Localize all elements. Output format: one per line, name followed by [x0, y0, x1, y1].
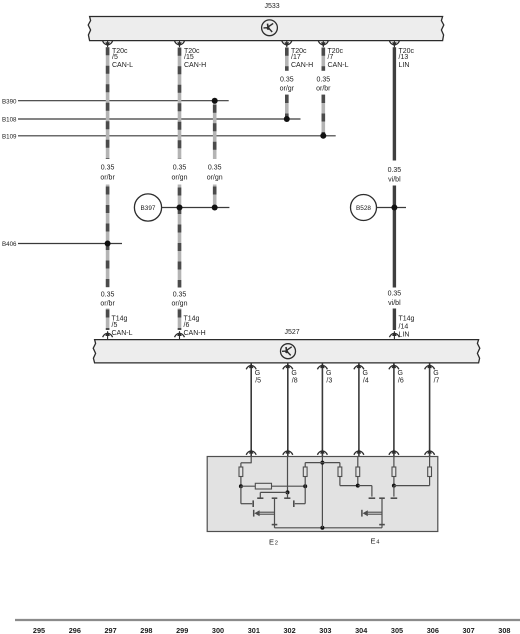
svg-text:G: G: [398, 370, 403, 377]
svg-text:G: G: [291, 370, 296, 377]
resistor in E4 (leftmost): [339, 463, 341, 467]
svg-text:J533: J533: [265, 3, 280, 10]
internal connection symbol K in J533: [262, 20, 278, 36]
svg-text:E: E: [269, 537, 274, 546]
terminal arrow T14g/6 at J527: [179, 331, 181, 339]
resistor in E4 (second): [356, 467, 360, 477]
wire from B397: [162, 207, 230, 209]
svg-text:/5: /5: [255, 378, 261, 385]
wire vi/bl LIN upper segment: [393, 47, 396, 160]
svg-text:B109: B109: [2, 134, 17, 141]
svg-text:B528: B528: [356, 205, 371, 212]
centre electrode of E4 transistor: [379, 497, 385, 499]
terminal arrow G/5 at J527 bottom: [250, 363, 252, 457]
terminal arrow T20c/13 at J533: [393, 41, 395, 48]
svg-text:G: G: [255, 370, 260, 377]
svg-text:307: 307: [463, 626, 475, 634]
svg-text:G: G: [326, 370, 331, 377]
junction B397 line / stub wire: [212, 205, 218, 211]
svg-text:0.35: 0.35: [208, 165, 222, 172]
node B junction in E2: [303, 484, 307, 488]
svg-text:or/gn: or/gn: [207, 175, 223, 182]
svg-text:4: 4: [376, 540, 380, 546]
svg-text:G: G: [363, 370, 368, 377]
svg-text:/7: /7: [328, 54, 334, 61]
svg-text:/13: /13: [399, 54, 409, 61]
diode in E4: [361, 510, 363, 517]
junction B528 line / LIN wire: [391, 205, 397, 211]
svg-text:/7: /7: [434, 378, 440, 385]
svg-text:B390: B390: [2, 98, 17, 105]
wire from pin G/3 through box: [321, 457, 323, 528]
wire or/br lower segment: [106, 309, 110, 331]
wire from B528: [377, 207, 407, 209]
wire vi/bl lower segment: [393, 309, 396, 331]
junction bottom rail / G3 wire: [320, 526, 324, 530]
terminal arrow G/8 at J527 bottom: [287, 363, 289, 457]
svg-text:CAN-H: CAN-H: [291, 62, 313, 69]
wire or/gn T20c/15 upper segment: [178, 47, 182, 159]
diode in E2: [253, 510, 255, 517]
control unit J533 (diagnostic interface / gateway): [88, 17, 444, 41]
junction on B390 line (stub wire): [212, 98, 218, 104]
bottom rail of E-box: [275, 527, 383, 529]
junction on B108 line (wire T20c/17): [284, 116, 290, 122]
svg-text:0.35: 0.35: [388, 167, 402, 174]
link resistor to node D: [394, 485, 430, 487]
svg-text:297: 297: [105, 626, 117, 634]
terminal arrow into E-box (G/4): [357, 449, 362, 454]
gate bar 2 of E2 transistor: [284, 497, 290, 499]
wire or/gn lower segment: [178, 309, 182, 331]
node B390 connection line: [18, 100, 229, 102]
svg-text:/5: /5: [112, 54, 118, 61]
connection B528: [351, 195, 377, 221]
svg-text:298: 298: [140, 626, 152, 634]
terminal arrow into E-box (G/3): [320, 449, 325, 454]
svg-text:304: 304: [355, 626, 368, 634]
node C junction in E4: [356, 484, 360, 488]
gate feed 1 of E4 transistor: [358, 485, 372, 487]
svg-text:/15: /15: [184, 54, 194, 61]
connection B397: [134, 194, 161, 221]
wire from pin G/4 to resistor: [357, 457, 359, 468]
junction on B109 line (wire T20c/7): [320, 133, 326, 139]
node B108 connection line: [18, 118, 301, 120]
terminal arrow T14g/5 at J527: [107, 331, 109, 339]
wire jog from pin G/5 to resistor: [250, 457, 252, 463]
top rail between resistors: [305, 462, 340, 464]
node B406 connection line: [18, 243, 122, 245]
svg-text:CAN-H: CAN-H: [184, 62, 206, 69]
current track scale line: [15, 619, 520, 621]
wire from pin G/6 to resistor: [393, 457, 395, 468]
svg-text:0.35: 0.35: [173, 165, 187, 172]
svg-text:302: 302: [284, 626, 296, 634]
resistor in E4 (rightmost): [428, 467, 432, 477]
wire from pin G/8 to gate node: [287, 457, 289, 493]
gate feed 2 of E4 transistor: [393, 486, 395, 497]
wire or/gn stub lower segment: [213, 185, 217, 208]
svg-text:B397: B397: [141, 205, 156, 212]
terminal arrow T20c/5 at J533: [107, 41, 109, 48]
wire or/gr lower segment: [285, 94, 289, 119]
svg-text:299: 299: [176, 626, 188, 634]
svg-text:301: 301: [248, 626, 260, 634]
svg-text:or/br: or/br: [316, 85, 331, 92]
svg-text:0.35: 0.35: [388, 290, 402, 297]
svg-text:CAN-L: CAN-L: [112, 62, 133, 69]
junction B397 line / CAN-H wire: [177, 205, 183, 211]
drain contact of E2 transistor: [293, 500, 295, 507]
gate bar 1 of E2 transistor: [257, 497, 263, 499]
resistor in E2 (right): [304, 477, 306, 487]
terminal arrow G/3 at J527 bottom: [321, 363, 323, 457]
terminal arrow T20c/15 at J533: [179, 41, 181, 48]
wire or/gn stub upper segment: [213, 101, 217, 159]
svg-text:E: E: [371, 536, 376, 545]
wire or/br T20c/5 upper segment: [106, 47, 110, 159]
svg-text:G: G: [433, 370, 438, 377]
svg-text:/6: /6: [184, 322, 190, 329]
svg-text:CAN-H: CAN-H: [184, 330, 206, 337]
terminal arrow G/6 at J527 bottom: [393, 363, 395, 457]
svg-text:0.35: 0.35: [101, 165, 115, 172]
control unit J527 (steering column electronics): [93, 340, 480, 363]
svg-text:B108: B108: [2, 117, 17, 124]
svg-text:/3: /3: [326, 378, 332, 385]
wire or/br lower segment (T20c/7): [321, 94, 325, 136]
gate bar 2 of E4 transistor: [391, 497, 398, 499]
svg-text:or/gn: or/gn: [172, 175, 188, 182]
series resistor (horizontal) in E2: [241, 485, 305, 487]
wire from pin G/7 to resistor: [429, 457, 431, 468]
svg-text:or/br: or/br: [100, 175, 115, 182]
svg-text:308: 308: [498, 626, 510, 634]
svg-text:/14: /14: [399, 324, 409, 331]
svg-text:0.35: 0.35: [173, 291, 187, 298]
terminal arrow T20c/17 at J533: [286, 41, 288, 48]
svg-text:305: 305: [391, 626, 403, 634]
svg-text:or/gr: or/gr: [280, 85, 295, 92]
svg-text:CAN-L: CAN-L: [112, 330, 133, 337]
gate bar 1 of E4 transistor: [369, 497, 376, 499]
gate node junction in E2: [286, 490, 290, 494]
junction top rail / G3 wire: [320, 461, 324, 465]
gate line of E2 transistor: [260, 491, 287, 493]
svg-text:300: 300: [212, 626, 224, 634]
svg-text:B406: B406: [2, 241, 17, 248]
terminal arrow into E-box (G/8): [286, 449, 291, 454]
wire or/gr T20c/17 upper segment: [285, 47, 289, 70]
svg-text:J527: J527: [285, 329, 300, 336]
terminal arrow G/7 at J527 bottom: [429, 363, 431, 457]
resistor in E2 (left): [239, 467, 243, 477]
svg-text:2: 2: [275, 541, 278, 547]
svg-text:303: 303: [319, 626, 331, 634]
centre electrode of E2 transistor: [272, 497, 278, 499]
terminal arrow into E-box (G/5): [249, 449, 254, 454]
source contact of E2 transistor: [240, 486, 242, 504]
svg-text:/6: /6: [398, 378, 404, 385]
terminal arrow T14g/14 at J527: [393, 331, 395, 339]
svg-text:/4: /4: [363, 378, 369, 385]
svg-text:/17: /17: [291, 54, 301, 61]
svg-text:or/gn: or/gn: [172, 301, 188, 308]
wire vi/bl middle segment: [393, 186, 396, 288]
wire or/br middle segment: [106, 185, 110, 288]
svg-text:vi/bl: vi/bl: [388, 177, 401, 184]
svg-text:/8: /8: [292, 378, 298, 385]
terminal arrow T20c/7 at J533: [322, 41, 324, 48]
node A junction in E2: [239, 484, 243, 488]
svg-text:LIN: LIN: [399, 62, 410, 69]
svg-text:/5: /5: [112, 322, 118, 329]
svg-text:295: 295: [33, 626, 45, 634]
wire or/gn middle segment: [178, 185, 182, 288]
terminal arrow G/4 at J527 bottom: [358, 363, 360, 457]
node B109 connection line: [18, 135, 336, 137]
svg-text:0.35: 0.35: [101, 291, 115, 298]
svg-text:0.35: 0.35: [316, 76, 330, 83]
svg-text:0.35: 0.35: [280, 76, 294, 83]
svg-text:LIN: LIN: [399, 331, 410, 338]
terminal arrow into E-box (G/6): [392, 449, 397, 454]
junction on B406 line (wire T20c/5): [105, 241, 111, 247]
svg-text:or/br: or/br: [100, 301, 115, 308]
resistor in E4 (third): [392, 467, 396, 477]
node D junction in E4: [392, 484, 396, 488]
internal connection symbol K in J527: [281, 344, 296, 359]
wire or/br T20c/7 upper segment: [321, 47, 325, 70]
switch unit box E2/E4: [207, 457, 438, 532]
terminal arrow into E-box (G/7): [427, 449, 432, 454]
svg-text:T14g: T14g: [399, 315, 415, 322]
svg-text:296: 296: [69, 626, 81, 634]
svg-text:vi/bl: vi/bl: [388, 300, 401, 307]
svg-text:CAN-L: CAN-L: [328, 62, 349, 69]
svg-text:306: 306: [427, 626, 439, 634]
